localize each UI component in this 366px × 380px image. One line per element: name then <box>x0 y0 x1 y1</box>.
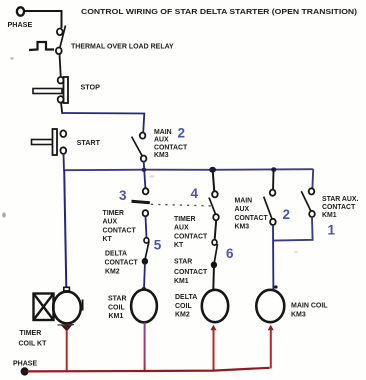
svg-text:KM1: KM1 <box>322 212 337 219</box>
svg-text:2: 2 <box>283 207 291 222</box>
wire: stop to branch node <box>61 103 62 114</box>
svg-text:AUX: AUX <box>103 219 118 226</box>
wire: contact 2 down to main coil <box>272 225 274 291</box>
svg-text:STOP: STOP <box>81 83 101 92</box>
wire: contact 4 to contact 6 <box>215 220 217 240</box>
svg-text:AUX: AUX <box>154 137 169 144</box>
svg-text:START: START <box>77 138 101 147</box>
wire: bus corner down to contact 1 <box>311 169 314 188</box>
wire: contact 1 down and left to main coil branch <box>274 217 313 240</box>
svg-text:CONTACT: CONTACT <box>174 233 208 240</box>
svg-text:STAR: STAR <box>174 259 192 266</box>
junction nub at star coil top <box>142 287 146 290</box>
wire: node to contact 2 (right main aux) <box>272 172 275 191</box>
thermal overload trip symbol <box>29 42 54 50</box>
arrow down below timer coil <box>61 325 73 332</box>
wire: contact 3 to contact 5 <box>146 216 147 238</box>
svg-text:CONTACT: CONTACT <box>105 260 139 267</box>
bottom phase bus (dark red) <box>28 368 270 372</box>
svg-text:5: 5 <box>154 238 162 253</box>
thermal overload relay contact <box>56 26 66 55</box>
contact 1: star aux contact KM1 (NO) <box>301 188 315 217</box>
svg-text:MAIN: MAIN <box>235 198 253 205</box>
node at bus x212 <box>209 167 216 173</box>
wire: delta coil to bottom bus (red) <box>213 329 215 371</box>
svg-text:KT: KT <box>174 242 184 249</box>
svg-text:MAIN: MAIN <box>154 129 172 136</box>
holding contact KM3 (no. 2, top) <box>132 133 147 162</box>
svg-text:KM1: KM1 <box>109 313 124 320</box>
wire: node to contact 4 <box>213 172 215 192</box>
dashed linkage between contacts 3 and 4 <box>151 204 214 206</box>
phase terminal (top) <box>17 7 24 15</box>
phase terminal (bottom) <box>21 368 27 375</box>
svg-text:TIMER: TIMER <box>174 216 195 223</box>
star coil KM1 <box>131 290 157 323</box>
wire: phase to thermal contact <box>25 11 62 28</box>
svg-text:1: 1 <box>328 223 336 238</box>
timer box with X <box>34 294 54 321</box>
svg-text:2: 2 <box>178 126 186 141</box>
arrow up into delta coil <box>210 325 216 331</box>
svg-text:KM2: KM2 <box>175 312 190 319</box>
svg-text:CONTACT: CONTACT <box>103 227 137 234</box>
svg-text:TIMER: TIMER <box>20 330 42 337</box>
wire: holding branch (upper horizontal) <box>62 113 145 133</box>
svg-text:4: 4 <box>191 186 199 201</box>
svg-text:AUX: AUX <box>235 206 250 213</box>
svg-text:COIL: COIL <box>108 304 125 311</box>
node at bus x273 <box>271 167 276 172</box>
wire: holding contact to bus to contact 3 <box>144 162 146 189</box>
svg-text:3: 3 <box>119 188 127 203</box>
svg-text:DELTA: DELTA <box>105 251 127 258</box>
svg-text:AUX: AUX <box>174 225 189 232</box>
wire: thermal contact to stop <box>60 54 61 78</box>
arrow up into main coil wire <box>268 325 274 331</box>
svg-text:KT: KT <box>103 236 113 243</box>
wire: timer coil to bottom bus (red) <box>66 330 68 372</box>
timer coil KT (circle) <box>53 292 81 324</box>
contact 6: star contact KM1 (NO) <box>211 240 217 268</box>
stop pushbutton (NC) <box>33 77 68 103</box>
svg-text:KM3: KM3 <box>235 224 250 231</box>
svg-text:KM2: KM2 <box>105 269 120 276</box>
junction square at timer coil top <box>64 287 70 291</box>
contact 3: timer aux contact KT (NC) <box>132 188 150 216</box>
delta coil KM2 <box>202 290 228 322</box>
svg-text:MAIN COIL: MAIN COIL <box>291 303 328 310</box>
wire: contact 6 to delta coil <box>212 267 215 290</box>
svg-text:STAR AUX.: STAR AUX. <box>322 196 358 203</box>
paper specks <box>10 57 13 59</box>
svg-text:THERMAL OVER LOAD RELAY: THERMAL OVER LOAD RELAY <box>71 44 174 51</box>
contact 2: main aux contact KM3 (NO, right) <box>264 190 276 225</box>
start pushbutton (NO) <box>32 129 67 155</box>
small arrow on main coil wire <box>274 285 278 288</box>
svg-text:COIL KT: COIL KT <box>19 341 48 348</box>
svg-text:CONTACT: CONTACT <box>174 269 208 276</box>
wire: star coil to bottom bus (purple) <box>144 323 146 371</box>
wire: main coil to bottom bus (red) <box>270 329 272 369</box>
svg-text:KM1: KM1 <box>174 278 189 285</box>
main coil KM3 <box>256 290 284 322</box>
svg-text:6: 6 <box>226 246 234 261</box>
svg-text:CONTACT: CONTACT <box>235 215 269 222</box>
svg-text:CONTACT: CONTACT <box>322 204 356 211</box>
svg-text:STAR: STAR <box>108 296 127 303</box>
svg-text:TIMER: TIMER <box>103 210 124 217</box>
svg-text:CONTROL WIRING OF STAR DELTA S: CONTROL WIRING OF STAR DELTA STARTER (OP… <box>81 7 358 16</box>
contact 4: timer aux contact KT (NO) <box>209 191 219 220</box>
svg-text:CONTACT: CONTACT <box>154 144 188 151</box>
wire: contact 5 to star coil <box>143 264 146 290</box>
svg-text:DELTA: DELTA <box>175 294 197 301</box>
wire: left vertical to timer coil (blue) <box>64 170 66 288</box>
node at bus x143 <box>142 168 147 172</box>
contact 5: delta contact KM2 (NO) <box>142 238 149 264</box>
tick right of timer coil <box>82 300 84 311</box>
wire: start to main bus <box>63 154 66 171</box>
main bus (horizontal) <box>63 169 313 170</box>
svg-text:PHASE: PHASE <box>13 361 37 368</box>
svg-text:KM3: KM3 <box>154 152 169 159</box>
svg-text:KM3: KM3 <box>291 311 306 318</box>
svg-text:PHASE: PHASE <box>8 20 33 29</box>
svg-text:COIL: COIL <box>175 303 192 310</box>
